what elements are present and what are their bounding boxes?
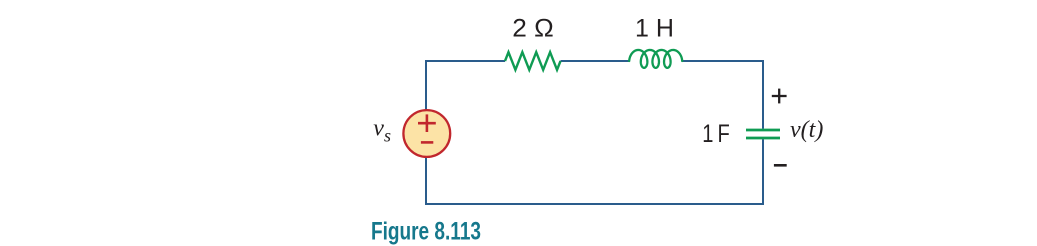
wire: top-right segment from inductor to capacitor top plate [682,61,763,129]
inductor L 1H coil [629,50,682,68]
resistor value label 2 ohm [512,15,554,43]
capacitor voltage label v(t) [790,117,823,143]
svg-text:1 F: 1 F [702,120,730,148]
svg-text:vs: vs [373,115,391,145]
wire: top segment between resistor and inductor [561,60,630,62]
capacitor C bottom plate [746,137,780,140]
wire: top-left horizontal segment [426,61,505,110]
inductor value label 1 H [635,15,674,43]
voltage source plus sign [418,114,436,132]
wire: bottom loop from capacitor bottom to source bottom [426,139,763,204]
figure caption [371,218,481,246]
capacitor C top plate [746,129,780,132]
resistor R 2-ohm zigzag [505,52,561,70]
voltage source minus sign [421,141,433,144]
svg-text:2 Ω: 2 Ω [512,15,554,43]
svg-text:v(t): v(t) [790,117,823,143]
svg-text:Figure 8.113: Figure 8.113 [371,218,481,246]
polarity minus below capacitor [774,164,787,167]
polarity plus above capacitor [772,89,787,104]
voltage source vs circle [403,110,450,157]
capacitor value label 1 F [702,120,730,148]
source label vs [373,115,391,145]
svg-text:1 H: 1 H [635,15,674,43]
